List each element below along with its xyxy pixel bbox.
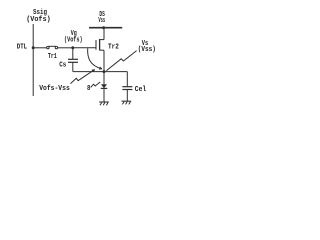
node junction on rail — [102, 26, 105, 29]
svg-text:Vss: Vss — [98, 17, 105, 25]
arrow Vs (Vss) zigzag leader — [106, 51, 136, 71]
svg-text:Tr1: Tr1 — [48, 53, 57, 61]
power rail DS Vss — [89, 27, 122, 29]
arrow Vgs arc (gate to source) — [88, 48, 102, 69]
wire Tr1 to gate node — [58, 47, 73, 49]
ground (below Cel) — [122, 100, 132, 102]
capacitor Cs — [72, 48, 74, 60]
wire source node horizontal — [73, 71, 128, 73]
wire DTL to Tr1 — [33, 47, 46, 49]
transistor Tr2 (drive transistor) — [103, 28, 105, 40]
svg-text:Cel: Cel — [135, 86, 146, 94]
arrow Vofs-Vss zigzag leader — [71, 70, 95, 84]
svg-text:(Vss): (Vss) — [138, 46, 156, 54]
arrow leader 8 (EL element reference) — [91, 82, 101, 87]
svg-text:Cs: Cs — [59, 62, 66, 70]
node DTL data line (vertical) — [32, 24, 34, 96]
svg-text:Tr2: Tr2 — [108, 44, 119, 52]
capacitor Cel — [122, 86, 132, 88]
wire source node to Cel — [126, 72, 128, 87]
svg-text:DTL: DTL — [17, 44, 27, 52]
ground (below EL element) — [99, 101, 109, 103]
node junction DTL — [32, 46, 35, 49]
svg-text:Vofs-Vss: Vofs-Vss — [39, 85, 70, 93]
svg-text:8: 8 — [87, 85, 90, 93]
svg-text:(Vofs): (Vofs) — [26, 16, 51, 24]
wire source node to diode — [103, 72, 105, 85]
node S (source node) — [103, 70, 106, 73]
wire diode to ground — [103, 88, 105, 102]
diode EL element 8 — [101, 84, 107, 88]
node G (gate node) — [71, 46, 74, 49]
transistor Tr1 (sampling switch) — [47, 46, 49, 48]
wire gate lead to Tr2 — [73, 47, 96, 49]
svg-text:(Vofs): (Vofs) — [64, 37, 83, 45]
